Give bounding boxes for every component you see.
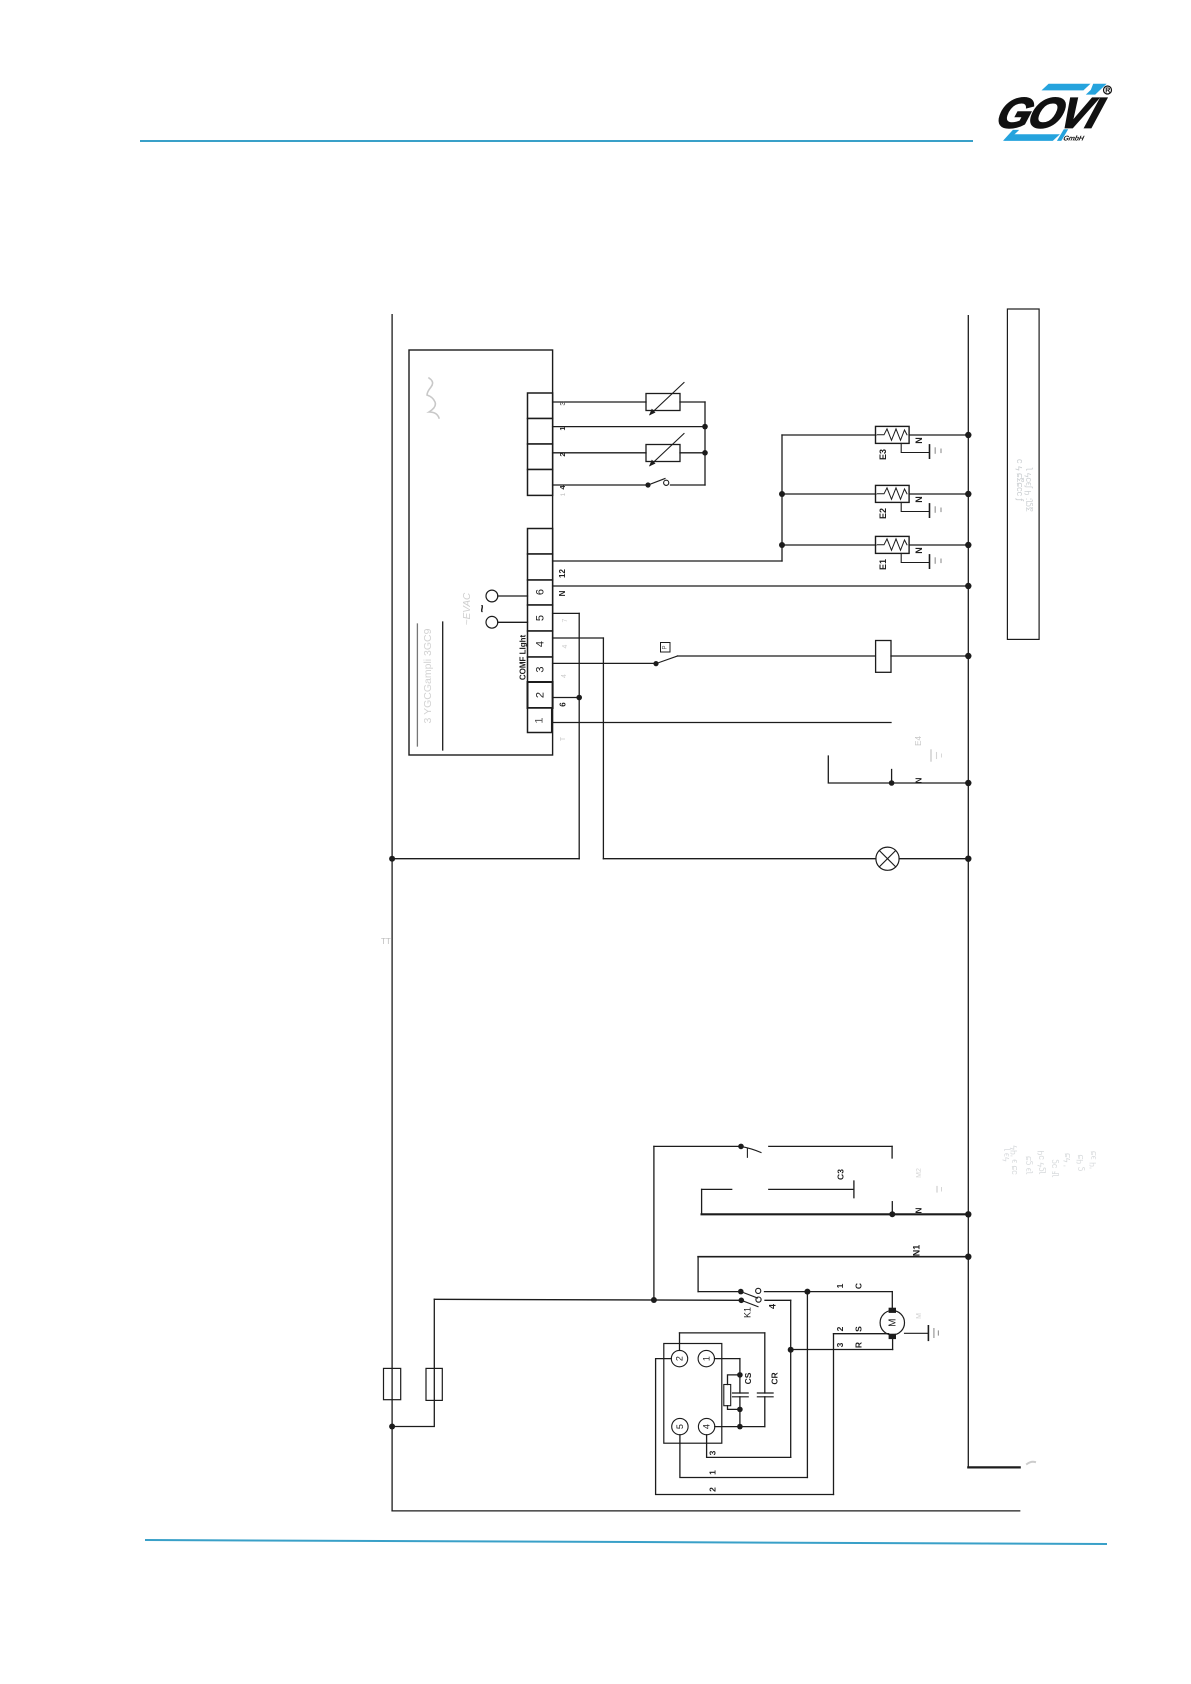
wire K1 row A left bbox=[698, 1291, 741, 1293]
wire feeder from terminal row bbox=[553, 560, 782, 562]
svg-text:~: ~ bbox=[474, 604, 490, 612]
svg-text:TT: TT bbox=[381, 937, 391, 946]
legend tall box bbox=[1007, 309, 1039, 639]
capacitor CR plates bbox=[757, 1392, 773, 1394]
logo top blue band bbox=[1042, 84, 1091, 91]
svg-text:M: M bbox=[916, 1313, 923, 1319]
wire vertical 579 bbox=[578, 613, 580, 858]
node bus coil bbox=[965, 653, 971, 659]
wire sensor row 3 bbox=[553, 401, 646, 403]
svg-text:5: 5 bbox=[675, 1424, 685, 1429]
svg-text:GOVI: GOVI bbox=[991, 90, 1110, 138]
wire heater feeder vertical bbox=[781, 435, 783, 561]
node bus N row bbox=[965, 583, 971, 589]
wire bottom return bbox=[392, 1510, 1020, 1512]
node CS bottom bbox=[737, 1407, 743, 1413]
ground E2 bbox=[901, 502, 929, 511]
wire K1 B to elbow bbox=[765, 1299, 791, 1301]
relay K1 coil box bbox=[876, 641, 891, 673]
logo top band corner piece bbox=[1086, 84, 1107, 95]
svg-text:4: 4 bbox=[562, 644, 569, 648]
svg-text:ʅϛϟ ͻϥ: ʅϛϟ ͻϥ bbox=[1036, 1150, 1046, 1174]
wire E3 row right bbox=[909, 434, 968, 436]
PTC branch bottom bbox=[728, 1406, 740, 1410]
PTC resistor bbox=[724, 1385, 731, 1406]
svg-text:E1: E1 bbox=[878, 559, 888, 570]
faded scribble bottom right bbox=[1027, 1462, 1035, 1464]
svg-text:2: 2 bbox=[835, 1326, 845, 1331]
wire circleB to terminal 5 bbox=[498, 621, 528, 623]
stub tick bbox=[891, 770, 893, 784]
svg-text:2: 2 bbox=[675, 1356, 685, 1361]
thermistor RT1 box bbox=[646, 394, 680, 411]
controller interior line 1 bbox=[416, 624, 418, 746]
svg-text:4: 4 bbox=[535, 641, 547, 647]
svg-text:COMF LIght: COMF LIght bbox=[519, 635, 528, 681]
node R row bbox=[788, 1347, 794, 1353]
heater E2 zigzag bbox=[878, 488, 908, 499]
wire terminal3 row to P switch bbox=[553, 662, 656, 664]
svg-text:M2: M2 bbox=[916, 1168, 923, 1178]
svg-text:1: 1 bbox=[560, 492, 567, 496]
svg-text:1: 1 bbox=[701, 1356, 711, 1361]
wire N stub L-shape bbox=[828, 756, 968, 783]
relay terminal 2 bbox=[671, 1350, 687, 1366]
svg-text:N: N bbox=[914, 496, 924, 503]
fuse F1 bbox=[384, 1368, 401, 1399]
logo bottom band right end bbox=[1057, 129, 1068, 141]
svg-text:1: 1 bbox=[835, 1283, 845, 1288]
svg-text:R: R bbox=[854, 1342, 864, 1348]
node defrost switch bbox=[738, 1144, 744, 1150]
wire terminal4 to vertical bbox=[553, 637, 604, 639]
logo GOVI wordmark bbox=[991, 90, 1110, 138]
logo (R) mark bbox=[1104, 86, 1112, 94]
node CS top bbox=[737, 1372, 743, 1378]
N2 stub bbox=[891, 1202, 893, 1215]
wire terminal5 to vertical bbox=[553, 612, 580, 614]
wire E1 row left bbox=[782, 544, 876, 546]
wire E2 row left bbox=[782, 493, 876, 495]
capacitor C3 left lead bbox=[702, 1188, 732, 1190]
svg-text:5: 5 bbox=[535, 615, 547, 621]
svg-text:7: 7 bbox=[562, 618, 569, 622]
svg-text:N1: N1 bbox=[912, 1245, 922, 1257]
capacitor C3 right lead bbox=[769, 1188, 853, 1190]
wire vertical 654 bbox=[653, 1146, 655, 1300]
node sensor junction 2 bbox=[702, 450, 708, 456]
wire C3 left vertical bbox=[701, 1189, 703, 1214]
node junction L / fuse2 return bbox=[389, 1424, 395, 1430]
svg-text:N: N bbox=[914, 547, 924, 554]
wire vertical 603 bbox=[602, 638, 604, 859]
node terminal4 row bbox=[737, 1424, 743, 1430]
svg-text:E3: E3 bbox=[878, 449, 888, 460]
svg-text:C3: C3 bbox=[836, 1169, 846, 1180]
grey scan marks bbox=[381, 378, 1098, 1178]
wire S vertical 833 bbox=[833, 1334, 835, 1495]
relay terminal 5 bbox=[672, 1418, 688, 1434]
motor ground lead bbox=[905, 1332, 928, 1334]
heater E1 box bbox=[876, 536, 910, 553]
wire E1 row right bbox=[909, 544, 968, 546]
thermistor RT2 box bbox=[646, 445, 680, 462]
svg-text:S: S bbox=[854, 1326, 864, 1332]
wire N row bbox=[553, 585, 969, 587]
motor M1 bottom terminal bbox=[889, 1334, 896, 1339]
capacitor CR top lead bbox=[764, 1333, 766, 1393]
lamp connector circle B bbox=[486, 616, 498, 628]
ground E3 bbox=[901, 443, 929, 452]
lamp LP1 bbox=[876, 847, 899, 870]
node bus E1 bbox=[965, 542, 971, 548]
controller U1 box bbox=[409, 350, 553, 755]
controller interior line 2 bbox=[442, 622, 444, 750]
relay terminal 4 bbox=[698, 1418, 714, 1434]
node row B vertical654 bbox=[651, 1297, 657, 1303]
wire vertical 790 bbox=[790, 1300, 792, 1457]
svg-text:ʹ ϟϧ: ʹ ϟϧ bbox=[1062, 1153, 1072, 1167]
svg-text:ʅϝ ͻϛ: ʅϝ ͻϛ bbox=[1049, 1159, 1059, 1178]
wire R row bbox=[791, 1349, 893, 1351]
P switch box bbox=[661, 643, 671, 653]
P switch lever bbox=[656, 656, 678, 664]
ground E1 bbox=[901, 553, 929, 562]
wire RT2 to vertical bbox=[680, 452, 705, 454]
svg-text:N: N bbox=[914, 437, 924, 444]
wire E2 row right bbox=[909, 493, 968, 495]
svg-text:3: 3 bbox=[835, 1342, 845, 1347]
wire terminal1 row bbox=[553, 722, 891, 724]
wire CS down bbox=[739, 1359, 741, 1375]
node feeder E1 bbox=[779, 542, 785, 548]
wire S row bbox=[834, 1333, 889, 1335]
wire E3 row left bbox=[782, 434, 876, 436]
svg-text:3: 3 bbox=[558, 401, 567, 405]
switch S1 contact circle bbox=[664, 480, 669, 485]
wire CS to terminal4 row bbox=[739, 1409, 741, 1426]
wire lamp row right net bbox=[603, 858, 876, 860]
lamp connector circle A bbox=[486, 590, 498, 602]
wire lamp to bus bbox=[899, 858, 968, 860]
wire K1 A to motor C bbox=[765, 1291, 893, 1293]
fuse F2 branch bbox=[392, 1299, 434, 1426]
svg-text:E2: E2 bbox=[878, 508, 888, 519]
svg-text:T: T bbox=[560, 736, 567, 741]
wire left supply line L bbox=[391, 315, 393, 1511]
svg-text:CS: CS bbox=[743, 1372, 753, 1384]
svg-text:P: P bbox=[663, 645, 669, 649]
K1 A lever bbox=[741, 1292, 758, 1298]
K1 B lever bbox=[741, 1300, 758, 1306]
wire sensor row 1 bbox=[553, 426, 705, 428]
wire right bus N bbox=[967, 316, 969, 1468]
svg-text:2: 2 bbox=[535, 692, 547, 698]
svg-text:ϟ϶ ʅ: ϟ϶ ʅ bbox=[1001, 1147, 1011, 1161]
wire P switch to relay coil bbox=[678, 655, 876, 657]
wire motor C lead bbox=[891, 1292, 893, 1308]
capacitor CS bottom lead bbox=[739, 1397, 741, 1410]
wire 2 terminal2 left bbox=[656, 1359, 834, 1495]
node bus E2 bbox=[965, 491, 971, 497]
node K1 A junction bbox=[804, 1289, 810, 1295]
K1 B contact circle bbox=[756, 1297, 761, 1302]
faded E4 ground bbox=[930, 750, 932, 761]
svg-text:1: 1 bbox=[558, 426, 567, 430]
logo bottom blue band bbox=[1004, 134, 1060, 141]
terminal block TB1 squares bbox=[528, 393, 553, 495]
capacitor CS plates bbox=[733, 1392, 749, 1394]
node P switch bbox=[653, 661, 658, 666]
node vertical 579 junction bbox=[576, 695, 582, 701]
switch S1 contact node bbox=[645, 482, 650, 487]
svg-text:ʅ϶ ϛϧ: ʅ϶ ϛϧ bbox=[1023, 1156, 1033, 1175]
wire 3 terminal4 down bbox=[707, 1435, 791, 1458]
wire defrost switch to C3 bbox=[769, 1145, 892, 1147]
wire S1 to vertical bbox=[671, 484, 706, 486]
node K1 A bbox=[738, 1289, 744, 1295]
header rule bbox=[141, 140, 972, 142]
node bus stub row bbox=[965, 780, 971, 786]
svg-text:N: N bbox=[914, 777, 924, 783]
wire coil to bus bbox=[891, 655, 968, 657]
wire 1 terminal5 down bbox=[680, 1435, 808, 1478]
fuse F2 bbox=[426, 1368, 442, 1400]
node sensor junction 1 bbox=[702, 424, 708, 430]
node stub bbox=[889, 780, 895, 786]
capacitor C3 plate bbox=[853, 1181, 855, 1198]
svg-text:E4: E4 bbox=[914, 736, 923, 746]
svg-text:N: N bbox=[558, 590, 567, 596]
node bus lamp row bbox=[965, 856, 971, 862]
wire bus bottom elbow bbox=[968, 1466, 1019, 1468]
defrost switch tick bbox=[746, 1149, 748, 1158]
wire circleA to terminal 6 bbox=[498, 595, 528, 597]
GOVI logo bbox=[991, 84, 1112, 143]
svg-text:K1: K1 bbox=[743, 1307, 753, 1318]
node N2 stub bbox=[889, 1211, 895, 1217]
wire terminal2 top lead bbox=[679, 1333, 681, 1351]
heater E3 zigzag bbox=[878, 429, 908, 440]
node bus N1 bbox=[965, 1254, 971, 1260]
wire terminal4 to CR bottom bbox=[715, 1426, 765, 1428]
svg-text:1: 1 bbox=[708, 1470, 718, 1475]
svg-text:ϛ ϥϧ: ϛ ϥϧ bbox=[1075, 1154, 1085, 1171]
wire sensor row 2 bbox=[553, 452, 646, 454]
wire K1 row B bbox=[434, 1299, 741, 1300]
wire lamp row left net bbox=[392, 858, 579, 860]
node K1 B bbox=[739, 1298, 745, 1304]
capacitor CS top lead bbox=[739, 1375, 741, 1393]
heater E1 zigzag bbox=[878, 539, 908, 550]
defrost switch lever bbox=[741, 1146, 761, 1152]
wire sensor row 14 bbox=[553, 484, 648, 486]
svg-text:3: 3 bbox=[708, 1450, 718, 1455]
wire sensor vertical bus bbox=[704, 402, 706, 485]
svg-text:ʹϥ ϶ϧ: ʹϥ ϶ϧ bbox=[1088, 1151, 1098, 1169]
svg-text:3: 3 bbox=[535, 666, 547, 672]
svg-text:~EVAC: ~EVAC bbox=[462, 592, 473, 625]
thermistor RT2 arrow bbox=[650, 434, 684, 466]
node junction L / lamp row bbox=[389, 856, 395, 862]
motor M1 top terminal bbox=[889, 1308, 896, 1313]
logo bottom band corner piece bbox=[1003, 130, 1019, 141]
K1 A contact circle bbox=[756, 1288, 761, 1293]
svg-text:6: 6 bbox=[559, 702, 568, 707]
wire N1 elbow down bbox=[697, 1257, 699, 1292]
logo GmbH bbox=[1062, 134, 1085, 142]
wire R to motor bbox=[892, 1339, 894, 1349]
svg-text:C: C bbox=[854, 1283, 864, 1289]
wire N2 row bold bbox=[702, 1213, 969, 1215]
svg-text:4: 4 bbox=[561, 674, 568, 678]
start relay RS1 box bbox=[664, 1344, 722, 1444]
svg-text:2: 2 bbox=[708, 1487, 718, 1492]
svg-text:ʓϛʅ; ϥ ʃ϶ͻϟ ʅ: ʓϛʅ; ϥ ʃ϶ͻϟ ʅ bbox=[1023, 467, 1034, 512]
svg-text:GmbH: GmbH bbox=[1062, 134, 1085, 142]
svg-text:4: 4 bbox=[702, 1424, 712, 1429]
motor ground bbox=[927, 1326, 929, 1341]
controller top-left scribble bbox=[427, 378, 439, 418]
svg-text:N: N bbox=[914, 1207, 924, 1213]
heater E2 box bbox=[876, 485, 910, 502]
svg-text:1: 1 bbox=[534, 717, 546, 723]
svg-text:3 YGCGampli 3GC9: 3 YGCGampli 3GC9 bbox=[422, 628, 434, 723]
thermistor RT1 arrow bbox=[650, 383, 684, 415]
wire terminal2 to vertical bbox=[553, 697, 579, 699]
wire vertical 807 bbox=[806, 1292, 808, 1478]
wire N1 row bbox=[698, 1256, 968, 1258]
svg-text:CR: CR bbox=[770, 1372, 780, 1384]
wire RT1 to vertical bbox=[680, 401, 705, 403]
PTC branch top bbox=[728, 1375, 740, 1385]
svg-text:M: M bbox=[888, 1319, 899, 1327]
svg-text:6: 6 bbox=[535, 589, 547, 595]
heater E3 box bbox=[876, 426, 910, 443]
switch S1 lever bbox=[648, 479, 665, 486]
node bus N2 bbox=[965, 1211, 971, 1217]
svg-text:2: 2 bbox=[558, 452, 567, 456]
capacitor CR bottom lead bbox=[764, 1397, 766, 1427]
node bus E3 bbox=[965, 432, 971, 438]
wire CR top rail bbox=[680, 1332, 765, 1334]
wire terminal1 to CS bbox=[715, 1358, 740, 1360]
svg-text:12: 12 bbox=[558, 569, 567, 578]
footer rule bbox=[146, 1540, 1106, 1544]
node feeder E2 bbox=[779, 491, 785, 497]
motor M1 body bbox=[880, 1311, 904, 1335]
wire C3 top lead bbox=[891, 1146, 893, 1158]
wire defrost switch row bbox=[654, 1145, 741, 1147]
relay terminal 1 bbox=[698, 1350, 714, 1366]
svg-text:4: 4 bbox=[768, 1304, 778, 1309]
svg-text:R: R bbox=[1105, 88, 1110, 95]
terminal block TB2 squares bbox=[528, 529, 553, 733]
